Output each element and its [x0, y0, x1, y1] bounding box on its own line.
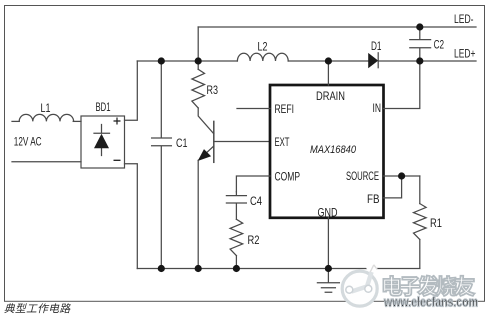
- svg-text:C1: C1: [176, 136, 188, 150]
- IC U1 MAX16840: [270, 85, 384, 218]
- Q1 emitter arrow: [199, 150, 211, 160]
- junction node LED+: [416, 57, 423, 64]
- svg-text:12V AC: 12V AC: [14, 134, 42, 148]
- svg-text:EXT: EXT: [275, 135, 290, 149]
- junction node GND rail: [325, 265, 332, 272]
- svg-text:FB: FB: [367, 192, 380, 206]
- svg-text:SOURCE: SOURCE: [346, 169, 379, 183]
- wire BD1 minus output to bottom rail: [125, 164, 138, 269]
- wire bottom rail: [137, 268, 420, 270]
- diode D1: [369, 54, 378, 68]
- wire BD1 plus output to top rail: [125, 61, 138, 120]
- svg-text:LED-: LED-: [454, 12, 474, 26]
- junction node DRAIN: [325, 57, 332, 64]
- wire IN pin from LED+ node: [384, 61, 420, 109]
- junction node LED- C2: [416, 23, 423, 30]
- BD1 plus sign: [114, 118, 121, 125]
- wire LED- line: [198, 26, 476, 28]
- svg-text:MAX16840: MAX16840: [310, 144, 357, 156]
- wire DRAIN pin to rail: [327, 61, 329, 85]
- svg-text:L1: L1: [41, 101, 51, 115]
- svg-text:R3: R3: [207, 83, 219, 97]
- junction node C1 top: [158, 57, 165, 64]
- wire top rail: [137, 60, 237, 62]
- wire Q1 base to EXT: [214, 141, 270, 143]
- inductor L2: [237, 53, 288, 61]
- svg-text:C4: C4: [250, 194, 262, 208]
- svg-text:DRAIN: DRAIN: [316, 89, 345, 103]
- node riser to LED- line: [197, 27, 199, 61]
- junction node SOURCE/FB: [398, 172, 405, 179]
- svg-text:R2: R2: [248, 233, 260, 247]
- wire SOURCE pin to R1: [384, 175, 420, 177]
- BD1 internal diode: [94, 125, 110, 156]
- svg-text:LED+: LED+: [454, 47, 476, 61]
- svg-text:L2: L2: [258, 40, 268, 54]
- svg-text:R1: R1: [430, 216, 442, 230]
- capacitor C2: [410, 27, 431, 61]
- wire R3 to Q1 collector: [198, 108, 214, 134]
- junction node A rail/R3: [195, 57, 202, 64]
- resistor R2: [230, 219, 243, 255]
- svg-text:C2: C2: [434, 38, 445, 52]
- wire GND pin to bottom rail: [327, 217, 329, 269]
- svg-text:BD1: BD1: [96, 100, 111, 114]
- bridge rectifier BD1: [81, 116, 125, 168]
- wire COMP to C4: [236, 176, 270, 192]
- watermark logo circle: [342, 263, 377, 307]
- wire L2 to D1: [288, 60, 368, 62]
- wire AC input top: [12, 120, 19, 122]
- svg-text:D1: D1: [371, 39, 382, 53]
- caption dianxing gongzuo dianlu: [4, 303, 72, 313]
- resistor R3: [197, 61, 199, 69]
- svg-text:COMP: COMP: [275, 169, 301, 183]
- svg-text:www.elecfans.com: www.elecfans.com: [383, 295, 478, 310]
- wire REFI stub: [237, 108, 270, 110]
- transistor Q1: [198, 121, 214, 162]
- BD1 minus sign: [114, 159, 121, 161]
- junction node R2 gnd: [233, 265, 240, 272]
- inductor L1: [19, 114, 73, 121]
- svg-text:GND: GND: [318, 206, 338, 220]
- watermark text dianzifashaoyou: [383, 276, 474, 296]
- capacitor C1: [152, 61, 172, 269]
- wire Q1 emitter down: [197, 160, 199, 268]
- wire D1 to LED+: [378, 60, 476, 62]
- capacitor C4: [226, 192, 246, 220]
- resistor R1: [419, 176, 421, 204]
- junction node C1 bottom: [158, 265, 165, 272]
- junction node emitter gnd: [195, 265, 202, 272]
- wire FB pin riser: [384, 176, 402, 198]
- wire L1 to BD1: [73, 120, 81, 122]
- svg-text:IN: IN: [373, 101, 382, 115]
- ground symbol: [317, 269, 339, 293]
- wire AC input bottom: [12, 161, 81, 163]
- svg-text:REFI: REFI: [275, 102, 295, 116]
